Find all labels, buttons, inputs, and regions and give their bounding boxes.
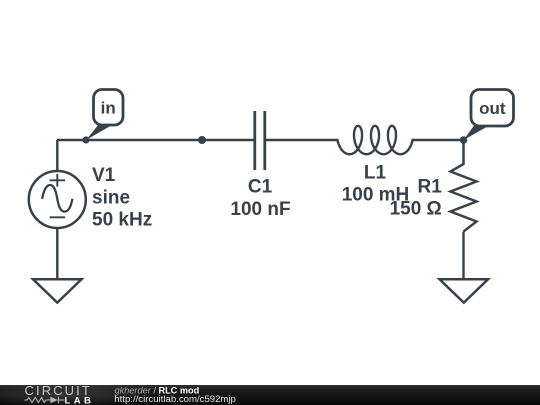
V1 sine wave symbol xyxy=(42,185,72,212)
flag tail (in) xyxy=(86,124,110,140)
svg-text:C1: C1 xyxy=(248,177,273,198)
wire V1 top vertical xyxy=(56,140,58,172)
voltage source V1 circle xyxy=(29,171,86,228)
flag box (in) xyxy=(94,90,124,126)
svg-text:50 kHz: 50 kHz xyxy=(92,210,152,231)
node junction dot (out) xyxy=(460,136,468,144)
V1 minus sign xyxy=(50,216,66,218)
svg-text:100 nF: 100 nF xyxy=(230,199,290,220)
svg-text:LAB: LAB xyxy=(65,396,95,405)
ground symbol left xyxy=(33,279,82,302)
inductor L1 coil xyxy=(338,126,413,154)
node junction dot (in) xyxy=(82,136,89,143)
wire top horizontal middle segment (C1 to L1) xyxy=(265,139,339,141)
svg-text:sine: sine xyxy=(92,188,130,209)
V1 plus sign xyxy=(50,174,66,187)
flag tail (out) xyxy=(464,126,487,140)
wire R1 bottom vertical xyxy=(462,232,464,281)
svg-text:out: out xyxy=(479,99,506,118)
resistor R1 zigzag xyxy=(451,140,477,232)
capacitor C1 plates xyxy=(255,111,265,170)
ground symbol right xyxy=(440,279,489,302)
wire V1 bottom vertical xyxy=(56,227,58,280)
CircuitLab logo resistor squiggle and diode xyxy=(25,397,65,403)
wire top horizontal right segment (L1 to out node) xyxy=(412,139,464,141)
wire top horizontal left segment xyxy=(57,139,255,141)
svg-text:L1: L1 xyxy=(364,163,387,184)
svg-text:R1: R1 xyxy=(418,177,443,198)
svg-text:http://circuitlab.com/c592mjp: http://circuitlab.com/c592mjp xyxy=(114,394,236,405)
svg-text:V1: V1 xyxy=(92,165,116,186)
node junction dot (mid wire) xyxy=(198,136,206,144)
flag box (out) xyxy=(471,90,514,127)
svg-text:150 Ω: 150 Ω xyxy=(390,199,442,220)
svg-text:in: in xyxy=(101,99,116,118)
